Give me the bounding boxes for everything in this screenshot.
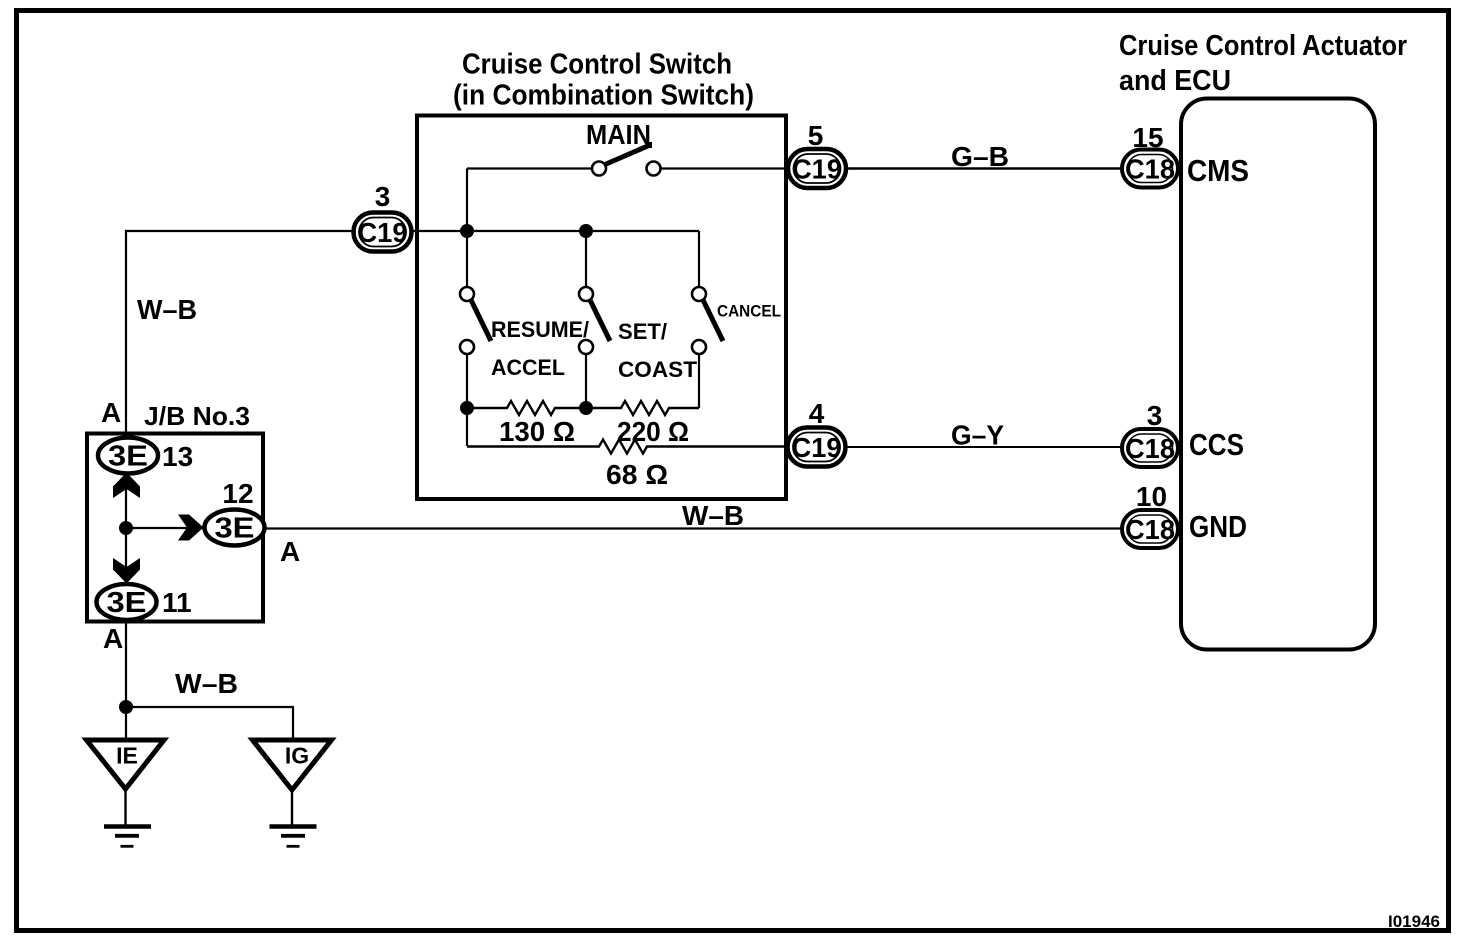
svg-text:68 Ω: 68 Ω [606,459,668,490]
svg-text:G–B: G–B [951,141,1009,172]
svg-text:220 Ω: 220 Ω [617,416,689,447]
svg-text:MAIN: MAIN [586,119,651,150]
ground triangle IE [87,740,165,789]
svg-text:CCS: CCS [1189,427,1244,462]
svg-text:G–Y: G–Y [951,420,1004,451]
switch SET/COAST: contact circles and lever [579,287,610,354]
wire: C19 pin4 to C18 pin3, G-Y [840,446,1125,448]
svg-text:C18: C18 [1125,433,1175,464]
svg-text:A: A [103,623,123,654]
svg-text:4: 4 [809,398,825,429]
svg-text:ACCEL: ACCEL [491,355,565,380]
J/B No.3 box [87,434,263,622]
wire: SET/COAST branch lower [585,353,587,408]
wire: C19 pin5 to C18 pin15, G-B [840,167,1125,169]
wire: MAIN switch right lead to C19 pin5 [660,167,800,169]
svg-text:(in Combination Switch): (in Combination Switch) [453,80,754,112]
wire: IG triangle stem [291,788,293,826]
ground triangle IG [253,740,332,790]
switch MAIN: contact circles and lever [592,142,661,176]
svg-text:15: 15 [1132,122,1163,153]
switch RESUME/ACCEL: contact circles and lever [460,287,491,354]
wire: CANCEL branch upper [698,231,700,288]
svg-text:and ECU: and ECU [1119,65,1231,97]
svg-text:C19: C19 [358,217,408,248]
ground symbol under IG [270,827,317,847]
svg-text:3E: 3E [215,513,255,545]
junction dot in J/B No.3 [119,521,133,535]
svg-text:12: 12 [222,478,253,509]
flow arrow up to 3E pin13 [113,473,140,499]
connector C19 pin 5 [788,149,846,188]
resistor 68 ohm on bottom wire to C19 pin4 [467,440,800,454]
wire: MAIN switch left lead [467,167,592,169]
connector C18 pin 10 [1122,510,1178,548]
switch CANCEL: contact circles and lever [692,287,723,354]
svg-text:3E: 3E [108,441,148,473]
wire: J/B internal vertical [125,435,127,601]
wire: internal bus from C19 pin3 [405,230,699,232]
ECU box (Cruise Control Actuator and ECU) [1181,99,1375,650]
junction dot on bus at SET branch [579,224,593,238]
resistor 220 ohm [586,401,699,415]
svg-text:C19: C19 [792,432,842,463]
connector C18 pin 3 [1122,429,1178,467]
svg-text:IE: IE [116,743,138,769]
wire: J/B internal horizontal to 3E pin12 [126,527,210,529]
connector C19 pin 3 [354,213,412,252]
svg-text:C18: C18 [1125,514,1175,545]
svg-text:10: 10 [1136,481,1167,512]
svg-text:IG: IG [285,743,309,769]
svg-text:CANCEL: CANCEL [717,302,781,321]
connector C19 pin 4 [788,428,846,467]
svg-text:SET/: SET/ [618,319,667,344]
junction dot at 130 ohm left [460,401,474,415]
resistor 130 ohm [467,401,586,415]
junction dot on bus at RESUME branch [460,224,474,238]
svg-text:Cruise Control Switch: Cruise Control Switch [462,49,732,81]
svg-text:A: A [280,536,300,567]
svg-text:GND: GND [1189,509,1247,544]
svg-text:Cruise Control Actuator: Cruise Control Actuator [1119,30,1407,62]
svg-text:A: A [101,397,121,428]
junction dot at ground branch [119,700,133,714]
ground symbol under IE [104,827,151,847]
svg-text:RESUME/: RESUME/ [491,317,589,342]
wire: IE triangle stem [124,787,126,826]
connector 3E pin 12 [205,510,265,546]
svg-text:CMS: CMS [1187,153,1249,188]
svg-text:C19: C19 [792,154,842,185]
flow arrow right to 3E pin12 [178,515,204,541]
svg-text:130 Ω: 130 Ω [499,416,575,447]
wire: branch to IG ground [126,707,293,740]
svg-text:11: 11 [162,587,192,618]
wire: 3E pin12 to C18 pin10, W-B ground wire [260,527,1125,529]
svg-text:3: 3 [1147,400,1163,431]
wire: 3E pin11 down to ground junction [125,618,127,740]
cruise control switch box [417,116,786,500]
svg-text:W–B: W–B [175,668,238,699]
wire: RESUME/ACCEL branch upper [466,231,468,288]
wire: RESUME/ACCEL branch lower [466,353,468,446]
wire: vertical from MAIN lead down to bus [466,169,468,232]
connector 3E pin 13 [98,438,158,474]
svg-text:COAST: COAST [618,357,698,382]
svg-text:3E: 3E [107,587,147,619]
wire: CANCEL branch lower [698,353,700,408]
svg-text:3: 3 [375,181,391,212]
svg-text:C18: C18 [1125,154,1175,185]
svg-text:W–B: W–B [682,500,744,531]
junction dot at 130 ohm right [579,401,593,415]
wire: C19 pin3 left lead W-B [126,231,360,433]
connector 3E pin 11 [97,584,157,620]
svg-text:I01946: I01946 [1388,912,1440,931]
svg-text:J/B No.3: J/B No.3 [144,401,250,431]
wire: SET/COAST branch upper [585,231,587,288]
flow arrow down to 3E pin11 [113,558,140,584]
svg-text:5: 5 [808,120,824,151]
svg-text:W–B: W–B [137,294,197,325]
connector C18 pin 15 [1122,150,1178,188]
svg-text:13: 13 [162,441,193,472]
